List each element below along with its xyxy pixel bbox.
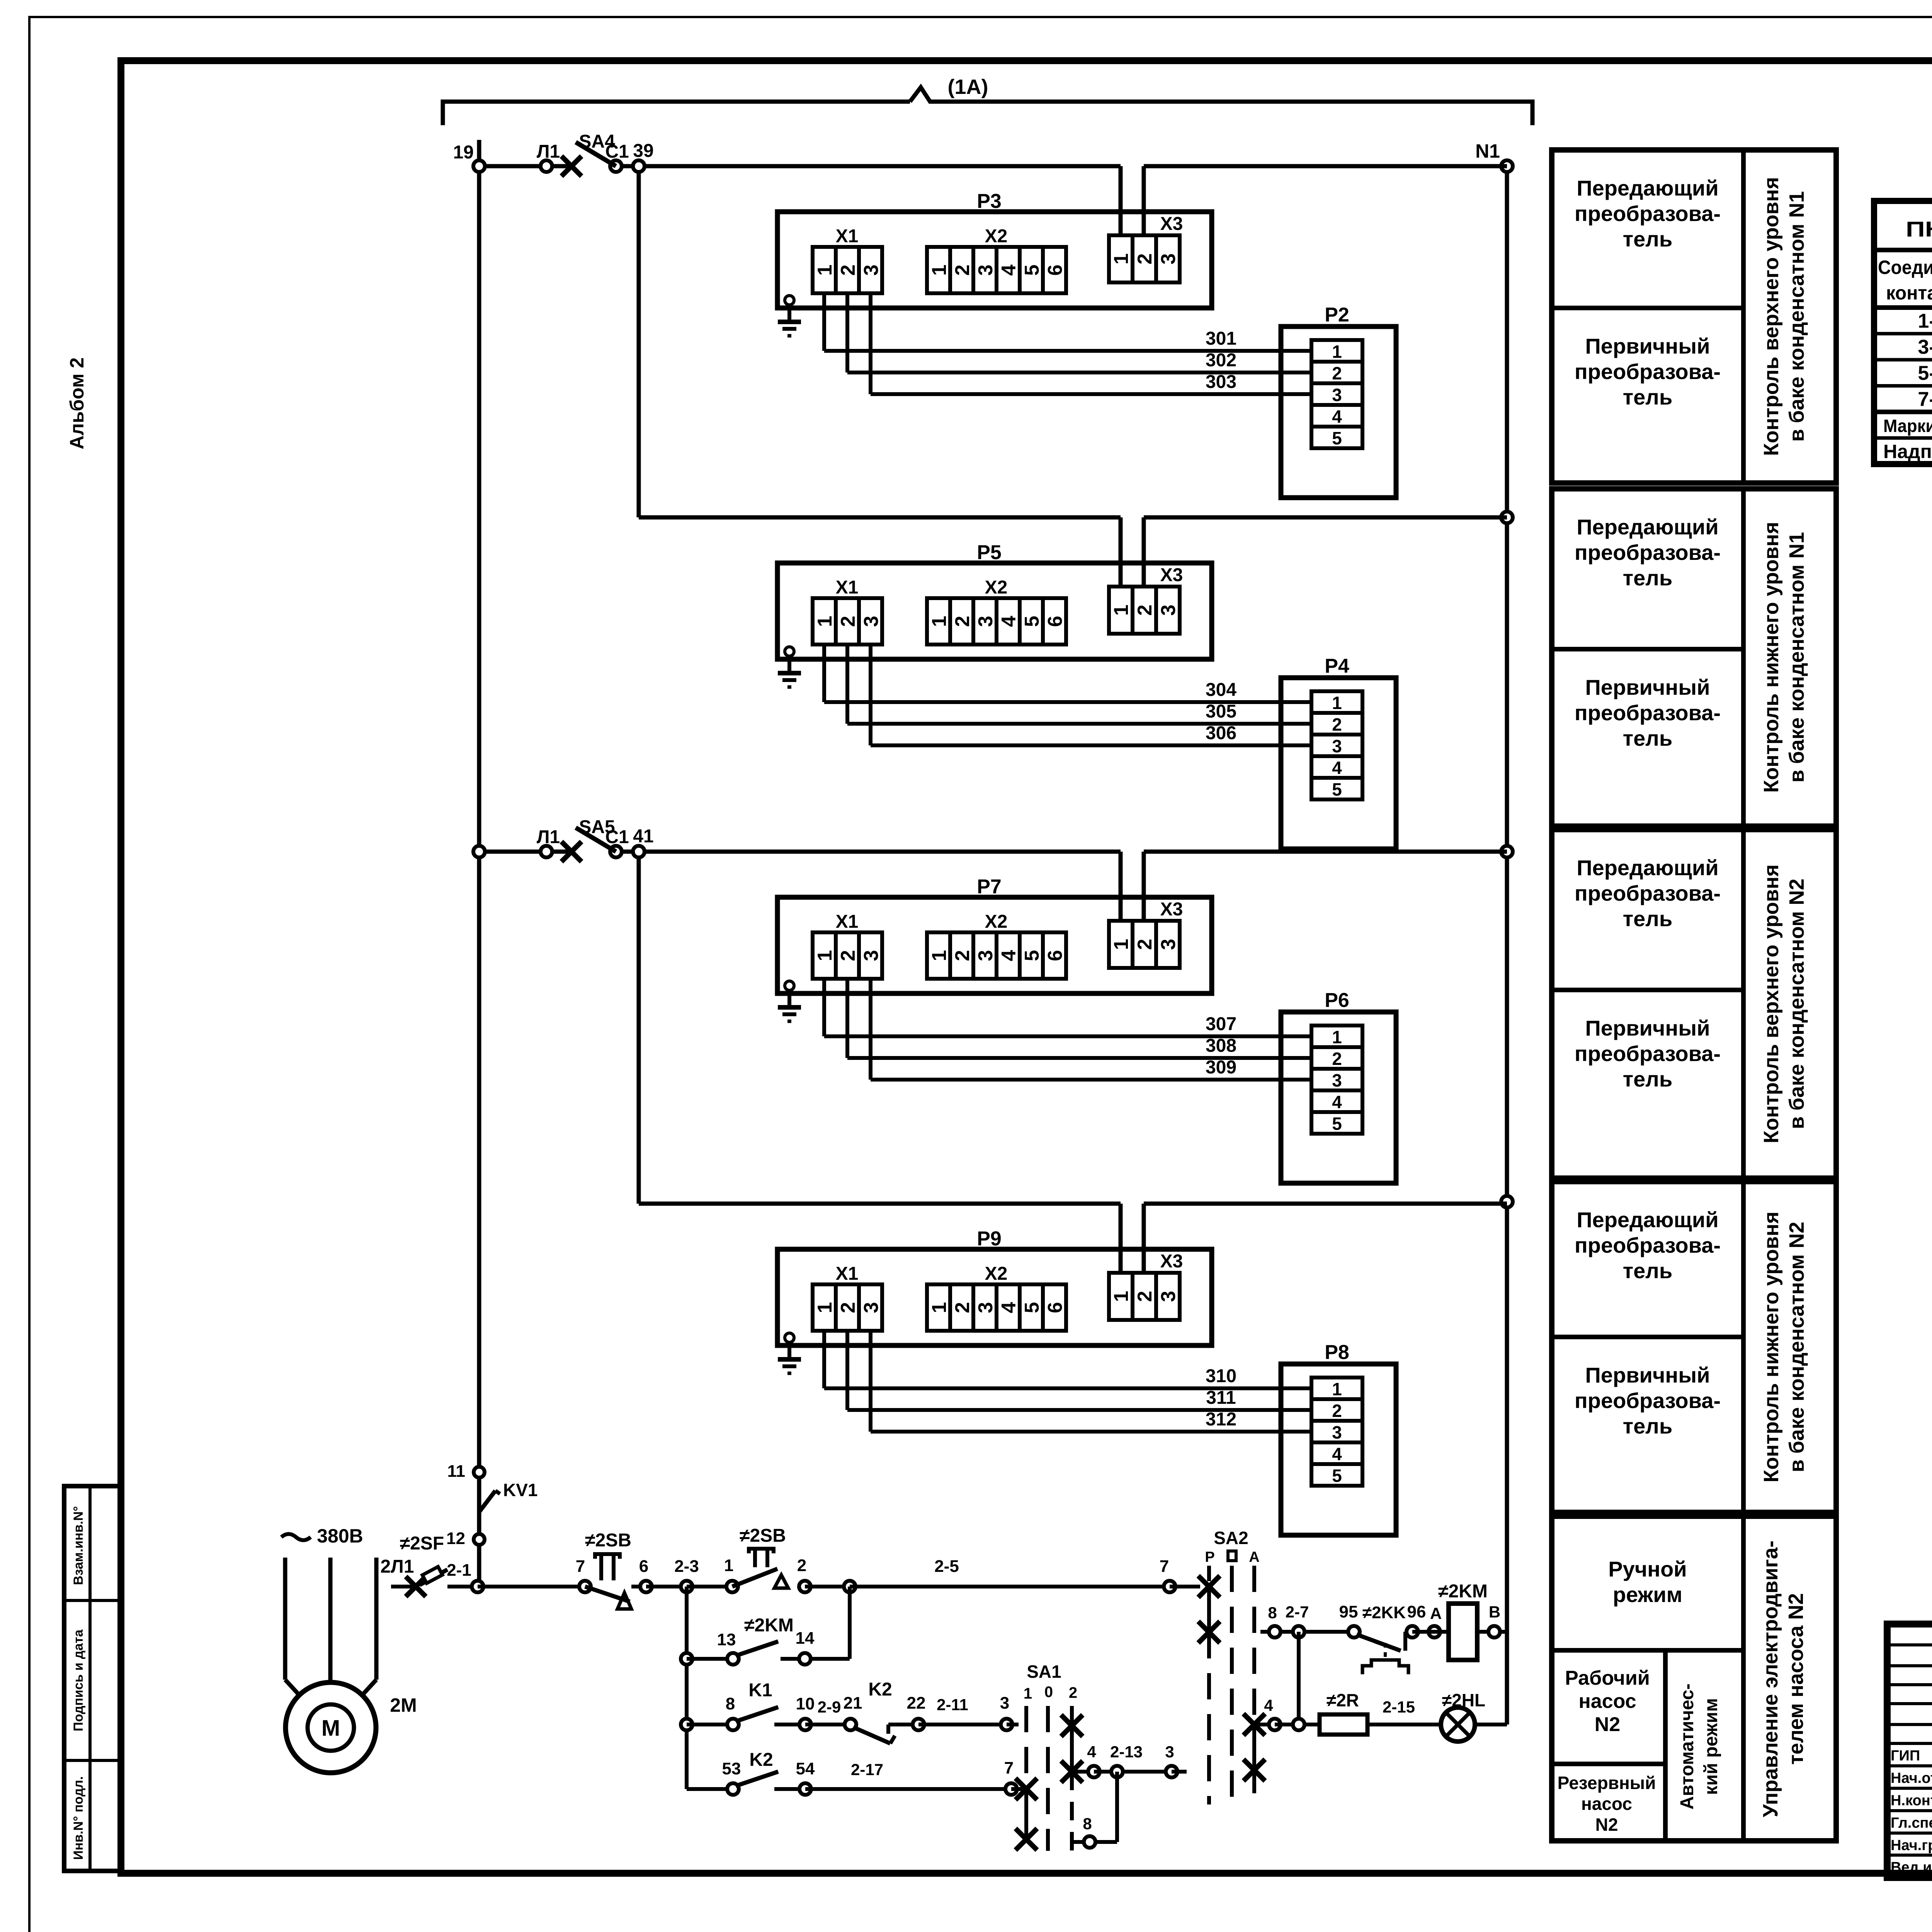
thermal relay contact ≠2KK (95-96) [1339,1602,1426,1674]
svg-text:96: 96 [1407,1602,1426,1621]
svg-text:2: 2 [837,616,859,627]
wire 308 [847,979,1311,1058]
svg-text:12: 12 [446,1529,465,1548]
svg-text:21: 21 [844,1694,862,1713]
svg-text:X2: X2 [985,1264,1008,1284]
svg-text:Первичный: Первичный [1585,334,1710,358]
svg-text:3: 3 [1332,736,1342,756]
svg-text:2-1: 2-1 [447,1561,471,1580]
svg-text:преобразова-: преобразова- [1575,1388,1721,1413]
wire 2-3 to 1 [687,1585,732,1588]
svg-text:N2: N2 [1595,1815,1618,1835]
wire drop from bus to X3.1 of P5 [1119,517,1123,587]
changeover contact K2 (21-22) [853,1679,1019,1743]
svg-text:19: 19 [453,142,474,163]
svg-text:X2: X2 [985,226,1008,247]
svg-text:Рабочий: Рабочий [1565,1667,1650,1689]
svg-text:1-2: 1-2 [1918,310,1932,332]
wire drop from N1 bus to X3.2 of P9 [1142,1204,1146,1273]
bus right segment [1144,515,1507,520]
svg-text:2: 2 [1134,1291,1156,1302]
svg-text:KV1: KV1 [503,1480,537,1500]
wire 312 [871,1331,1311,1432]
svg-text:X1: X1 [836,577,859,598]
svg-text:310: 310 [1206,1366,1236,1386]
svg-text:Управление электродвига-: Управление электродвига- [1759,1541,1782,1817]
svg-text:4: 4 [1332,758,1342,778]
bus row with switch SA5 [473,817,1121,862]
wire 311 [847,1331,1311,1410]
primary transducer unit P8 [1281,1341,1396,1535]
svg-text:4: 4 [1332,1444,1342,1464]
relay contact KV1 on left bus [446,1462,537,1548]
fuse-switch 2Л1 / 2SF [380,1533,478,1597]
svg-text:1: 1 [928,950,951,961]
svg-text:в баке конденсатном N1: в баке конденсатном N1 [1785,191,1808,442]
left vertical bus (node 19 down to control circuit) [477,140,481,1587]
svg-text:K2: K2 [749,1750,773,1770]
node 7 (right) [1164,1581,1175,1592]
right vertical bus N1 [1505,166,1509,1725]
svg-text:P7: P7 [977,876,1002,898]
svg-text:5: 5 [1021,950,1043,961]
svg-text:X3: X3 [1160,899,1183,920]
svg-text:312: 312 [1206,1409,1236,1430]
svg-text:380В: 380В [317,1525,363,1547]
svg-text:X2: X2 [985,577,1008,598]
svg-text:2: 2 [837,950,859,961]
svg-text:2: 2 [1332,1049,1342,1069]
svg-text:2М: 2М [390,1694,417,1716]
svg-text:1: 1 [814,1302,836,1313]
svg-text:1: 1 [928,265,951,276]
svg-text:насос: насос [1581,1794,1632,1814]
svg-text:2: 2 [1134,605,1156,616]
svg-text:8: 8 [1268,1604,1277,1622]
svg-text:≠2R: ≠2R [1327,1690,1359,1710]
svg-text:1: 1 [1110,1291,1133,1302]
svg-text:тель: тель [1623,1414,1673,1438]
node N1 [1501,160,1513,172]
transmitter unit P3 [777,190,1212,308]
node 6 [640,1581,652,1592]
svg-text:в баке конденсатном N2: в баке конденсатном N2 [1785,879,1808,1129]
svg-text:2: 2 [837,1302,859,1313]
svg-text:Надпись: Надпись [1883,440,1932,462]
svg-text:N1: N1 [1475,140,1500,162]
svg-text:SA2: SA2 [1214,1528,1248,1548]
svg-text:3-4: 3-4 [1918,336,1932,358]
svg-text:1: 1 [1024,1685,1032,1702]
svg-text:303: 303 [1206,372,1236,392]
node А [1429,1626,1440,1638]
sub-rung node 8 below SA1 [1072,1772,1117,1848]
svg-text:тель: тель [1623,385,1673,409]
svg-text:2: 2 [951,1302,974,1313]
svg-text:3: 3 [1157,1291,1180,1302]
junction node after start button [844,1581,855,1592]
svg-text:306: 306 [1206,723,1236,743]
svg-text:5: 5 [1021,616,1043,627]
svg-text:1: 1 [814,950,836,961]
svg-text:преобразова-: преобразова- [1575,1233,1721,1257]
primary transducer unit P2 [1281,304,1396,498]
SA2 position А contact pair [1243,1714,1265,1804]
svg-text:X2: X2 [985,912,1008,932]
svg-text:4: 4 [998,950,1020,961]
svg-text:302: 302 [1206,350,1236,371]
svg-text:Передающий: Передающий [1577,176,1718,200]
svg-text:Гл.спец.: Гл.спец. [1891,1815,1932,1831]
SA1 position 2 contact pair [1061,1715,1083,1851]
svg-text:2-11: 2-11 [937,1696,968,1714]
transmitter unit P9 [777,1228,1212,1345]
svg-text:Р: Р [1205,1549,1214,1565]
svg-text:преобразова-: преобразова- [1575,359,1721,384]
svg-text:X3: X3 [1160,214,1183,234]
svg-text:1: 1 [814,616,836,627]
wire 304 [824,645,1311,702]
svg-text:2-9: 2-9 [818,1698,841,1716]
primary transducer unit P4 [1281,655,1396,849]
svg-text:3: 3 [1165,1743,1174,1761]
svg-text:2-17: 2-17 [851,1760,883,1779]
svg-text:Л1: Л1 [537,827,560,847]
svg-text:≠2HL: ≠2HL [1442,1690,1485,1710]
svg-text:Альбом 2: Альбом 2 [66,357,88,449]
svg-text:6: 6 [1044,616,1066,627]
svg-text:2: 2 [951,265,974,276]
svg-text:10: 10 [796,1694,815,1713]
svg-text:22: 22 [907,1694,926,1713]
function table group 2: Контроль нижнего уровня N1 [1552,489,1836,826]
svg-text:3: 3 [975,1302,997,1313]
svg-text:309: 309 [1206,1057,1236,1078]
svg-text:0: 0 [1044,1684,1053,1701]
svg-text:Первичный: Первичный [1585,1016,1710,1040]
svg-text:5-6: 5-6 [1918,362,1932,384]
SA2 position Р contact pair [1198,1576,1220,1804]
node 2 [799,1581,811,1592]
selector SA1 dashed lines [1024,1662,1077,1851]
wire 309 [871,979,1311,1080]
svg-text:≠2KK: ≠2KK [1362,1603,1406,1622]
wire 305 [847,645,1311,724]
svg-text:8: 8 [726,1694,735,1713]
svg-text:2-7: 2-7 [1286,1603,1309,1621]
svg-text:3: 3 [1157,939,1180,950]
block4 bus line [639,1202,1121,1206]
bus right segment [1144,164,1507,168]
svg-text:4: 4 [1087,1743,1096,1761]
contactor coil ≠2KM [1438,1581,1488,1660]
svg-text:тель: тель [1623,906,1673,931]
svg-text:Контроль нижнего уровня: Контроль нижнего уровня [1760,522,1783,793]
svg-text:2: 2 [1069,1684,1077,1701]
block2 bus line [639,515,1121,520]
switch contact table SA1 [1874,172,1932,464]
svg-text:3: 3 [1000,1694,1009,1713]
wire drop from N1 bus to X3.2 of P5 [1142,517,1146,587]
svg-text:P4: P4 [1325,655,1349,677]
svg-text:2-5: 2-5 [934,1557,959,1576]
svg-text:4: 4 [998,1302,1020,1313]
svg-text:Нач.отд.: Нач.отд. [1891,1770,1932,1786]
svg-text:1: 1 [814,265,836,276]
rung 8 / 2-7 wire [1260,1603,1354,1638]
svg-text:X1: X1 [836,226,859,247]
svg-text:308: 308 [1206,1036,1236,1056]
svg-text:53: 53 [722,1759,741,1778]
signal lamp ≠2HL [1441,1690,1507,1742]
selector SA2 dashed lines [1205,1528,1259,1804]
svg-text:301: 301 [1206,328,1236,349]
svg-text:311: 311 [1206,1388,1236,1408]
svg-text:4: 4 [1264,1696,1273,1714]
svg-text:тель: тель [1623,726,1673,750]
svg-text:3: 3 [860,950,883,961]
svg-text:Л1: Л1 [537,141,560,162]
bus junction nodes on right vertical [1501,512,1513,523]
svg-text:N2: N2 [1595,1713,1620,1736]
supply label 380В [281,1525,363,1547]
wire drop from bus to X3.1 of P3 [1119,166,1123,235]
wire 307 [824,979,1311,1036]
svg-text:P6: P6 [1325,989,1349,1012]
svg-text:Первичный: Первичный [1585,675,1710,699]
self-hold contact ≠2KM (13-14) [681,1615,815,1665]
start button ≠2SB (NO) [732,1526,788,1588]
svg-text:4: 4 [998,616,1020,627]
svg-text:3: 3 [1157,605,1180,616]
svg-text:≠2SB: ≠2SB [585,1530,631,1551]
main control rung wire [478,1585,585,1588]
svg-text:5: 5 [1021,1302,1043,1313]
svg-text:Взам.инв.N°: Взам.инв.N° [71,1506,86,1585]
svg-text:6: 6 [1044,950,1066,961]
svg-text:Нач.гр.: Нач.гр. [1891,1837,1932,1854]
svg-text:2-15: 2-15 [1383,1698,1415,1716]
svg-text:3: 3 [1157,253,1180,265]
svg-text:(1А): (1А) [948,75,988,99]
svg-text:3: 3 [860,265,883,276]
svg-text:Контроль верхнего уровня: Контроль верхнего уровня [1760,177,1783,456]
svg-text:1: 1 [1332,342,1342,362]
svg-text:4: 4 [1332,406,1342,427]
svg-text:3: 3 [1332,385,1342,405]
svg-text:3: 3 [975,950,997,961]
wire 310 [824,1331,1311,1388]
svg-text:кий режим: кий режим [1701,1698,1721,1795]
svg-text:2: 2 [951,950,974,961]
svg-text:1: 1 [1332,1379,1342,1399]
svg-text:7: 7 [1004,1759,1014,1777]
svg-text:преобразова-: преобразова- [1575,201,1721,226]
svg-text:1: 1 [1110,253,1133,265]
svg-text:2: 2 [1332,714,1342,735]
svg-text:тель: тель [1623,227,1673,251]
svg-text:K2: K2 [868,1679,892,1700]
svg-text:2: 2 [1332,1401,1342,1421]
node 7 [579,1581,591,1592]
svg-text:2-3: 2-3 [674,1557,699,1576]
function table group 3: Контроль верхнего уровня N2 [1552,830,1836,1178]
svg-text:C1: C1 [605,141,629,162]
svg-text:ГИП: ГИП [1891,1748,1920,1764]
svg-text:в баке конденсатном N2: в баке конденсатном N2 [1785,1222,1808,1473]
ground symbol of P3 [778,296,801,336]
bus right segment [1144,850,1507,854]
svg-text:Контроль верхнего уровня: Контроль верхнего уровня [1760,864,1783,1143]
svg-text:4: 4 [998,264,1020,276]
svg-text:М: М [321,1716,340,1741]
svg-text:А: А [1430,1604,1442,1622]
svg-text:Вед.инж.: Вед.инж. [1891,1859,1932,1876]
svg-text:39: 39 [633,141,653,161]
svg-text:1: 1 [1110,605,1133,616]
wire drop from bus to X3.1 of P7 [1119,852,1123,921]
svg-text:контактов: контактов [1886,282,1932,304]
svg-text:телем насоса N2: телем насоса N2 [1784,1593,1808,1765]
svg-text:X1: X1 [836,912,859,932]
svg-text:Передающий: Передающий [1577,855,1718,880]
svg-text:преобразова-: преобразова- [1575,540,1721,565]
resistor rung with ≠2R [1254,1690,1441,1735]
wire 302 [847,293,1311,372]
rung 4 / 2-13 / 3 [1072,1743,1187,1777]
svg-text:P2: P2 [1325,304,1349,326]
svg-text:А: А [1249,1549,1259,1565]
svg-text:P8: P8 [1325,1341,1349,1364]
left stamp column (Взам.инв.N / Подпись и дата / Инв.N подл.) [64,1486,120,1871]
svg-text:6: 6 [1044,265,1066,276]
svg-text:5: 5 [1332,428,1342,448]
svg-text:Соединение: Соединение [1878,257,1932,278]
title block [1887,1624,1932,1878]
feed vertical from node 39 to block2 bus [637,166,641,517]
bus right segment [1144,1202,1507,1206]
wire 2-5 [850,1585,1170,1588]
node В [1477,1603,1507,1638]
svg-text:насос: насос [1578,1690,1636,1713]
transmitter unit P7 [777,876,1212,993]
ground symbol of P9 [778,1333,801,1373]
svg-text:1: 1 [1110,939,1133,950]
wire 6 to 2-3 [646,1585,687,1588]
ground symbol of P5 [778,647,801,687]
svg-text:Автоматичес-: Автоматичес- [1677,1684,1697,1810]
svg-text:2: 2 [1134,939,1156,950]
node 2-3 [681,1581,692,1592]
contact K1 (8-10) rung [681,1680,862,1730]
svg-text:3: 3 [975,265,997,276]
svg-text:Передающий: Передающий [1577,515,1718,539]
svg-text:Маркировка: Маркировка [1883,416,1932,436]
svg-text:5: 5 [1332,1114,1342,1134]
svg-text:Ручной: Ручной [1608,1557,1687,1581]
svg-text:ПКУЗ-12С: ПКУЗ-12С [1906,217,1932,241]
stop button ≠2SB (NC) [585,1530,646,1609]
svg-text:304: 304 [1206,680,1236,700]
wire drop from bus to X3.1 of P9 [1119,1204,1123,1273]
svg-text:2: 2 [837,265,859,276]
bus row with switch SA4 [473,131,1121,176]
svg-text:307: 307 [1206,1014,1236,1034]
svg-text:2: 2 [797,1556,806,1575]
svg-text:3: 3 [975,616,997,627]
svg-text:тель: тель [1623,1259,1673,1283]
svg-text:P3: P3 [977,190,1002,213]
svg-text:2: 2 [1332,363,1342,383]
wire 7 to SA2 [1170,1585,1200,1588]
svg-text:Передающий: Передающий [1577,1207,1718,1232]
svg-text:11: 11 [447,1462,465,1481]
svg-text:7-8: 7-8 [1918,388,1932,410]
svg-text:P5: P5 [977,541,1002,564]
svg-text:≠2KM: ≠2KM [1438,1581,1488,1602]
callout bracket (1А) [443,75,1532,125]
svg-text:X1: X1 [836,1264,859,1284]
node 2-1 [472,1581,483,1592]
branch vertical re-join after 2KM contact [848,1587,852,1659]
svg-text:Инв.N° подл.: Инв.N° подл. [71,1776,86,1860]
wire 301 [824,293,1311,351]
svg-text:6: 6 [1044,1302,1066,1313]
svg-text:8: 8 [1083,1815,1092,1833]
feed vertical from node 41 to block4 bus [637,852,641,1204]
motor 2M [286,1682,417,1773]
svg-text:1: 1 [928,1302,951,1313]
wire 303 [871,293,1311,394]
svg-text:1: 1 [928,616,951,627]
branch vertical from node 2-3 [685,1587,689,1789]
svg-text:7: 7 [1160,1557,1169,1576]
transmitter unit P5 [777,541,1212,659]
svg-text:5: 5 [1021,265,1043,276]
svg-text:41: 41 [633,826,653,847]
svg-text:6: 6 [639,1557,648,1576]
svg-text:Первичный: Первичный [1585,1363,1710,1387]
svg-text:2: 2 [1134,253,1156,265]
svg-text:Резервный: Резервный [1558,1773,1656,1793]
contact K2 (53-54) rung [687,1750,1024,1795]
svg-text:1: 1 [724,1556,733,1575]
svg-text:тель: тель [1623,566,1673,590]
svg-text:1: 1 [1332,693,1342,713]
svg-text:В: В [1489,1603,1500,1621]
svg-text:SA1: SA1 [1027,1662,1061,1682]
svg-text:3: 3 [860,616,883,627]
vertical from 2-7 to resistor rung [1297,1632,1301,1725]
svg-text:≠2SB: ≠2SB [740,1526,786,1546]
svg-text:305: 305 [1206,701,1236,722]
svg-text:≠2KM: ≠2KM [744,1615,794,1636]
ground symbol of P7 [778,981,801,1021]
svg-text:P9: P9 [977,1228,1002,1250]
wire drop from N1 bus to X3.2 of P3 [1142,166,1146,235]
svg-text:2: 2 [951,616,974,627]
phase wires to motor [285,1558,376,1694]
svg-text:преобразова-: преобразова- [1575,701,1721,725]
svg-text:5: 5 [1332,779,1342,799]
svg-text:2-13: 2-13 [1110,1743,1143,1761]
wire 306 [871,645,1311,745]
svg-text:≠2SF: ≠2SF [400,1533,444,1554]
svg-text:2Л1: 2Л1 [380,1556,414,1577]
svg-text:7: 7 [576,1557,585,1576]
function table group 1: Контроль верхнего уровня N1 [1552,150,1836,483]
wire drop from N1 bus to X3.2 of P7 [1142,852,1146,921]
